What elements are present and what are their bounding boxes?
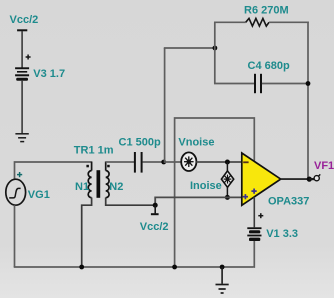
wire N2 bottom to Vcc/2 junction: [106, 198, 156, 206]
svg-text:Vcc/2: Vcc/2: [10, 14, 39, 26]
wire VG1 bottom to rail: [14, 205, 16, 267]
wire R6 left lead: [214, 21, 246, 23]
junction N1 rail: [79, 265, 84, 270]
transformer TR1 phase dot right: [107, 165, 110, 168]
battery V3 plus sign: [26, 55, 31, 60]
wire Vcc/2 stub: [154, 205, 156, 213]
junction ground rail: [220, 265, 225, 270]
source VG1 plus sign: [17, 172, 22, 177]
wire R6 right lead: [269, 21, 309, 23]
transformer TR1 secondary pin top: [105, 162, 107, 171]
wire N1 bottom to rail: [82, 198, 92, 268]
op-amp non-inverting input marker: [243, 194, 248, 199]
battery V3: [15, 67, 29, 81]
svg-text:V1 3.3: V1 3.3: [266, 228, 298, 240]
wire ground stub bottom: [221, 267, 223, 284]
wire op-amp positive supply stub: [253, 197, 255, 227]
svg-text:C4 680p: C4 680p: [248, 60, 290, 72]
transformer TR1 primary winding N1: [88, 171, 91, 198]
junction supply rail: [172, 265, 177, 270]
wire op-amp negative supply to ground rail: [175, 118, 255, 267]
wire bottom ground rail: [14, 266, 254, 268]
svg-text:V3 1.7: V3 1.7: [33, 68, 65, 80]
junction N2/Vcc2 node: [153, 203, 158, 208]
source VG1: [6, 179, 26, 205]
svg-text:Vnoise: Vnoise: [178, 137, 214, 149]
wire V3 to ground: [21, 81, 23, 134]
wire op-amp output: [281, 178, 310, 180]
junction output node: [307, 177, 312, 182]
Vcc/2 terminal bar middle: [151, 213, 159, 215]
capacitor C1: [135, 152, 142, 173]
svg-text:VF1: VF1: [314, 160, 334, 172]
ground below V3: [15, 134, 28, 142]
svg-text:Vcc/2: Vcc/2: [140, 221, 169, 233]
transformer TR1 core: [97, 170, 101, 198]
resistor R6: [246, 18, 269, 26]
transformer TR1 secondary winding N2: [106, 171, 109, 198]
wire Vcc/2 node to op-amp non-inverting input: [155, 197, 242, 204]
wire Inoise top stub: [226, 162, 228, 171]
wire R6/C4 left vertical: [214, 22, 216, 83]
transformer TR1 phase dot left: [86, 165, 89, 168]
wire node to Vnoise: [164, 161, 182, 163]
source Vnoise: [181, 152, 196, 171]
wire feedback jog horizontal: [164, 47, 215, 49]
svg-text:Inoise: Inoise: [190, 180, 222, 192]
junction feedback jog: [213, 46, 218, 51]
wire V1 bottom to rail: [253, 241, 256, 267]
wire C4 left lead: [214, 83, 254, 85]
wire N2 to C1: [106, 161, 134, 163]
svg-text:OPA337: OPA337: [268, 196, 309, 208]
svg-text:N1: N1: [75, 181, 89, 193]
svg-text:C1 500p: C1 500p: [119, 136, 161, 148]
ground bottom: [216, 285, 229, 294]
wire feedback left vertical: [164, 48, 166, 161]
op-amp positive supply marker: [251, 189, 256, 194]
svg-text:R6 270M: R6 270M: [244, 5, 289, 17]
op-amp inverting input marker: [243, 161, 248, 163]
svg-text:N2: N2: [109, 181, 123, 193]
junction C1/feedback node: [161, 160, 166, 165]
op-amp U1 OPA337: [242, 153, 281, 205]
transformer TR1 primary pin top: [91, 162, 93, 171]
junction Inoise bottom: [225, 195, 230, 200]
wire C4 right lead: [262, 83, 308, 85]
wire VG1 top to transformer N1: [15, 162, 92, 179]
source Inoise burst glyph: [224, 175, 232, 184]
junction Inoise top: [225, 160, 230, 165]
output terminal VF1 glyph: [314, 176, 319, 181]
svg-text:TR1 1m: TR1 1m: [74, 144, 114, 156]
wire Inoise bottom stub: [226, 187, 228, 197]
battery V1 plus sign: [258, 213, 263, 218]
Vcc/2 terminal bar top-left: [17, 29, 27, 31]
source Vnoise burst glyph: [184, 156, 194, 167]
wire C1 to node: [143, 161, 164, 163]
battery V1: [247, 227, 261, 241]
wire output to VF1 terminal: [309, 178, 314, 180]
source Inoise diamond: [221, 171, 233, 187]
svg-text:VG1: VG1: [28, 189, 50, 201]
wire Vnoise to op-amp inverting input: [196, 161, 242, 163]
wire Vcc/2 bar to V3 plus: [21, 31, 23, 68]
source VG1 waveform glyph: [9, 188, 20, 198]
wire feedback right vertical: [307, 22, 309, 180]
junction C4 right: [306, 81, 311, 86]
capacitor C4: [255, 74, 261, 93]
